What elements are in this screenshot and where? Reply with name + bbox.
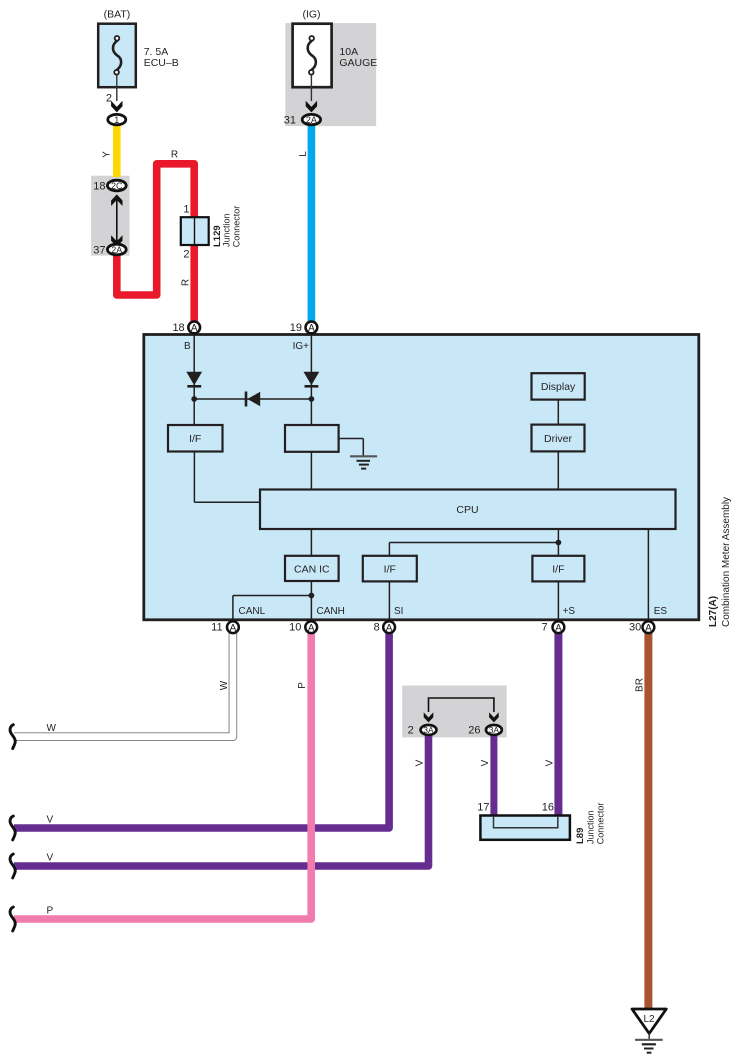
svg-text:CANL: CANL (239, 606, 266, 617)
svg-text:26: 26 (468, 725, 480, 737)
svg-text:W: W (47, 723, 57, 734)
svg-text:1: 1 (114, 115, 119, 125)
svg-text:L27(A): L27(A) (708, 596, 719, 627)
svg-text:L89: L89 (575, 828, 586, 844)
svg-text:I/F: I/F (552, 563, 564, 575)
svg-text:17: 17 (477, 801, 489, 813)
svg-text:V: V (480, 759, 491, 766)
svg-text:V: V (47, 853, 54, 864)
svg-text:3A: 3A (423, 725, 434, 735)
svg-text:A: A (308, 323, 315, 334)
svg-text:Connector: Connector (596, 803, 606, 845)
svg-text:Y: Y (102, 151, 113, 158)
svg-text:A: A (191, 323, 198, 334)
svg-text:2: 2 (408, 725, 414, 737)
svg-text:19: 19 (290, 322, 302, 334)
svg-text:SI: SI (394, 606, 403, 617)
svg-text:8: 8 (374, 622, 380, 634)
svg-text:Connector: Connector (231, 206, 241, 248)
svg-text:V: V (545, 759, 556, 766)
svg-text:3A: 3A (489, 725, 500, 735)
svg-text:L: L (298, 151, 309, 157)
svg-text:L2: L2 (643, 1014, 655, 1025)
svg-text:B: B (184, 341, 191, 352)
svg-text:(BAT): (BAT) (104, 9, 131, 21)
svg-text:A: A (386, 623, 393, 634)
svg-text:Junction: Junction (586, 810, 596, 844)
svg-text:30: 30 (629, 622, 641, 634)
svg-text:7: 7 (541, 622, 547, 634)
svg-text:(IG): (IG) (302, 9, 320, 21)
svg-text:A: A (645, 623, 652, 634)
svg-text:+S: +S (563, 606, 576, 617)
svg-text:Driver: Driver (544, 433, 573, 445)
svg-text:16: 16 (542, 801, 554, 813)
svg-text:2C: 2C (111, 181, 123, 191)
svg-text:A: A (308, 623, 315, 634)
svg-text:37: 37 (93, 245, 105, 257)
svg-text:2A: 2A (111, 245, 122, 255)
svg-text:Combination Meter Assembly: Combination Meter Assembly (721, 497, 732, 627)
svg-text:GAUGE: GAUGE (339, 57, 377, 69)
svg-text:P: P (47, 906, 54, 917)
svg-text:I/F: I/F (189, 433, 201, 445)
svg-text:W: W (219, 680, 230, 690)
svg-text:2A: 2A (306, 115, 317, 125)
svg-text:Junction: Junction (222, 213, 232, 247)
svg-text:R: R (171, 150, 178, 161)
svg-text:CPU: CPU (456, 504, 478, 516)
svg-text:V: V (47, 815, 54, 826)
svg-text:11: 11 (211, 622, 222, 634)
svg-text:A: A (555, 623, 562, 634)
svg-text:I/F: I/F (384, 563, 396, 575)
svg-text:Display: Display (541, 381, 576, 393)
svg-text:ECU–B: ECU–B (144, 57, 179, 69)
svg-text:10: 10 (289, 622, 301, 634)
svg-text:18: 18 (93, 181, 105, 193)
svg-text:P: P (297, 682, 308, 689)
svg-text:CAN IC: CAN IC (294, 563, 330, 575)
svg-text:A: A (230, 623, 237, 634)
svg-text:31: 31 (284, 115, 296, 127)
svg-text:IG+: IG+ (293, 341, 310, 352)
svg-text:CANH: CANH (317, 606, 345, 617)
svg-text:1: 1 (183, 204, 189, 216)
svg-text:2: 2 (183, 249, 189, 261)
svg-text:2: 2 (106, 93, 112, 105)
svg-text:R: R (181, 279, 192, 286)
svg-text:V: V (415, 759, 426, 766)
svg-text:BR: BR (635, 678, 646, 692)
svg-text:18: 18 (172, 322, 184, 334)
svg-text:ES: ES (654, 606, 668, 617)
